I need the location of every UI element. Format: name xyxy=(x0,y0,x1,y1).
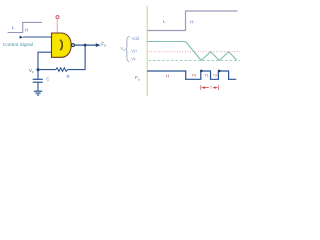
ground xyxy=(34,90,42,92)
svg-text:H: H xyxy=(190,19,193,24)
NAND Schmitt-trigger gate U1 body xyxy=(52,33,72,57)
period dimension tick left xyxy=(200,85,202,90)
Vdd level segment of Vc trace xyxy=(147,41,186,43)
resistor R xyxy=(56,68,68,72)
control input step waveform glyph xyxy=(8,22,42,32)
wire gate output xyxy=(75,44,97,46)
gate U1 output inversion bubble xyxy=(72,44,75,47)
svg-text:L: L xyxy=(163,19,166,24)
svg-text:Vt-: Vt- xyxy=(131,56,137,61)
wire control input to gate xyxy=(23,36,52,38)
Vt+ threshold dotted line xyxy=(149,51,241,53)
period dimension arrow right xyxy=(214,86,218,89)
wire VDD to gate xyxy=(56,19,58,33)
timing diagram axis xyxy=(146,6,148,97)
node Vc junction dot xyxy=(36,68,39,71)
wire resistor to node Vc xyxy=(38,69,56,71)
Fo output square-wave trace xyxy=(147,71,236,79)
svg-text:c: c xyxy=(32,70,34,74)
brace for Vc levels xyxy=(125,36,129,61)
svg-text:C: C xyxy=(46,76,49,81)
control input arrow xyxy=(20,36,23,39)
svg-text:T1: T1 xyxy=(204,73,209,78)
wire output node down to resistor xyxy=(68,45,86,70)
svg-text:c: c xyxy=(123,48,125,52)
Vc capacitor voltage waveform xyxy=(186,42,237,61)
svg-text:Vt+: Vt+ xyxy=(131,49,138,54)
svg-text:H: H xyxy=(166,73,169,78)
svg-text:o: o xyxy=(138,77,140,81)
svg-text:T0: T0 xyxy=(192,73,197,78)
capacitor C xyxy=(33,78,43,80)
svg-text:T2: T2 xyxy=(213,73,218,78)
period dimension arrow left xyxy=(201,86,205,89)
period dimension tick right xyxy=(217,85,219,90)
svg-text:H: H xyxy=(25,28,28,33)
node dot period end xyxy=(218,70,221,73)
svg-text:R: R xyxy=(67,74,70,79)
control signal trace (L to H step) xyxy=(147,11,237,31)
gate U1 hysteresis mark xyxy=(60,40,62,50)
node dot period start xyxy=(200,70,203,73)
wire node Vc down to capacitor xyxy=(37,70,39,80)
svg-text:T: T xyxy=(210,85,213,90)
output arrowhead xyxy=(96,43,101,47)
svg-text:o: o xyxy=(104,44,106,48)
wire node Vc up to gate lower input xyxy=(38,52,51,69)
VDD supply circle xyxy=(56,16,59,19)
svg-text:L: L xyxy=(12,25,15,30)
period dimension line xyxy=(205,87,209,89)
svg-text:Control Signal: Control Signal xyxy=(3,42,33,48)
junction output node xyxy=(84,44,87,47)
Vt- threshold dashed line xyxy=(149,60,241,62)
svg-text:Vdd: Vdd xyxy=(132,36,140,41)
wire capacitor to ground xyxy=(37,82,39,91)
